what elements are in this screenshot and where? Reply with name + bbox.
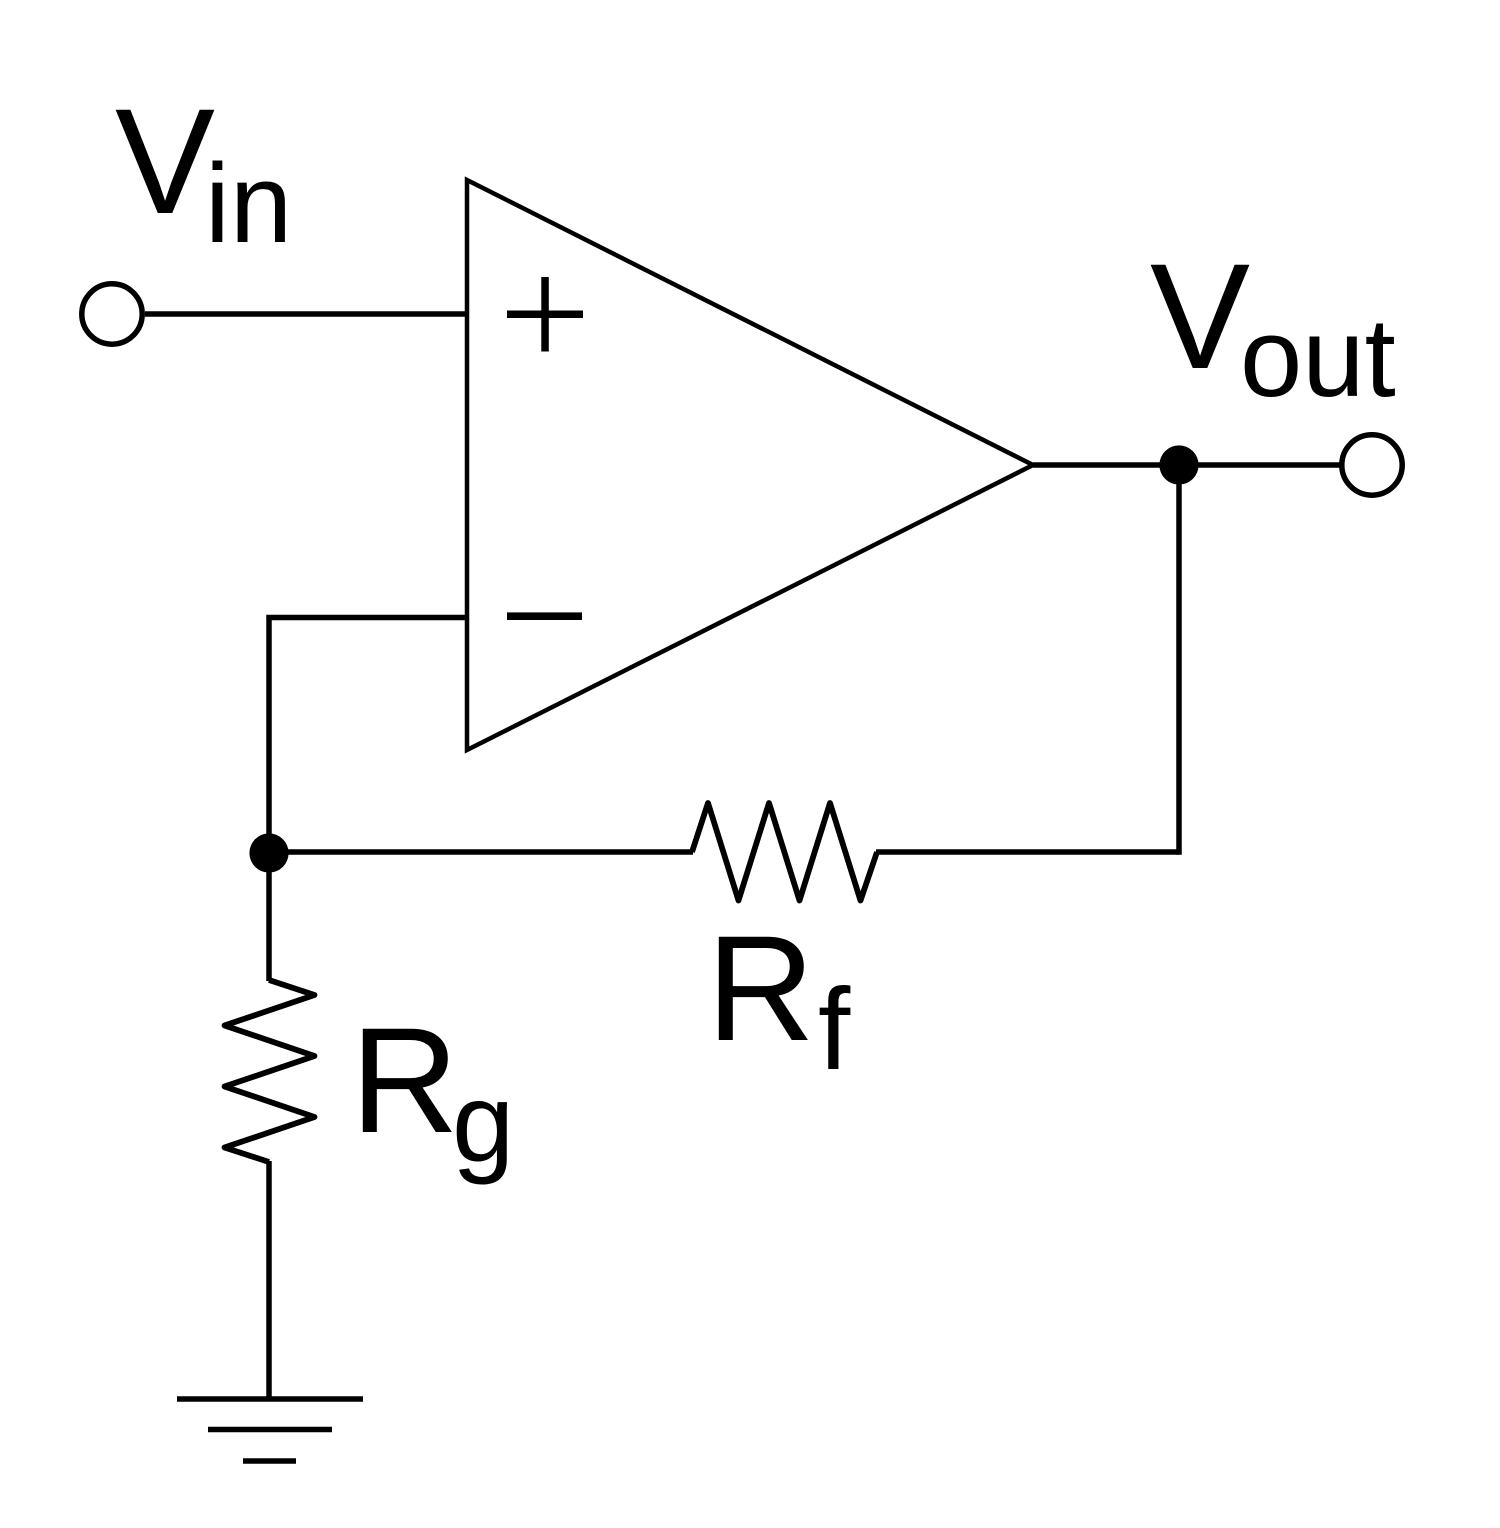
node junction A (inverting node) [249,833,288,872]
svg-text:V: V [1150,232,1250,400]
svg-text:out: out [1240,295,1396,420]
resistor Rf [692,803,877,901]
output terminal (Vout) [1342,435,1402,495]
node junction B (output node) [1159,445,1198,484]
resistor Rg label [351,996,515,1185]
wire junction A to Rf [269,849,693,855]
wire Rg to ground [266,1161,272,1399]
wire output node down to Rf [1176,465,1182,855]
wire Vin to non-inverting input [145,311,467,317]
op-amp plus pin label [507,277,583,352]
op-amp minus pin label [507,612,582,620]
wire Rf to output node [876,849,1179,855]
svg-text:in: in [205,141,292,266]
wire op-amp output [1033,462,1340,468]
svg-text:f: f [818,964,851,1094]
op-amp U1 [467,180,1033,750]
resistor Rg [225,980,315,1162]
ground [177,1399,363,1461]
node Vout label [1150,232,1396,420]
svg-text:R: R [351,996,459,1164]
svg-text:R: R [707,904,815,1072]
node Vin label [115,77,292,266]
svg-text:g: g [452,1060,514,1185]
resistor Rf label [707,904,852,1094]
input terminal (Vin) [82,284,142,344]
svg-text:V: V [115,77,215,245]
wire junction A down to Rg [266,853,272,981]
wire inverting input feedback [269,618,467,854]
